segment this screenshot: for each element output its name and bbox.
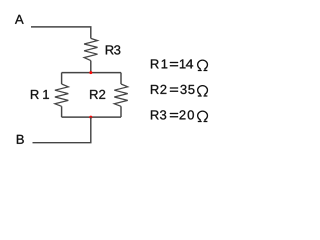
label R3 [106, 45, 120, 54]
wire R3 bottom lead [90, 61, 92, 73]
label R1 [31, 90, 49, 99]
junction node top (red) [89, 71, 92, 74]
wire R1 bottom lead [61, 106, 63, 117]
value label R3=20 ohm [151, 110, 194, 119]
label R2 [90, 90, 105, 99]
value label R1=14 ohm [151, 59, 193, 68]
junction node bottom (red) [89, 116, 92, 119]
resistor R3 [84, 38, 97, 60]
wire from node A to R3 [31, 27, 91, 39]
wire R2 bottom lead [120, 106, 122, 117]
wire top rail [62, 72, 121, 74]
wire bottom rail [62, 116, 121, 118]
wire R2 top lead [120, 73, 122, 84]
node B [17, 135, 24, 144]
resistor R1 [55, 84, 68, 106]
node A [15, 15, 24, 24]
wire from bottom junction to node B [33, 117, 91, 143]
wire R1 top lead [61, 73, 63, 84]
resistor R2 [114, 84, 127, 106]
value label R2=35 ohm [151, 85, 195, 94]
